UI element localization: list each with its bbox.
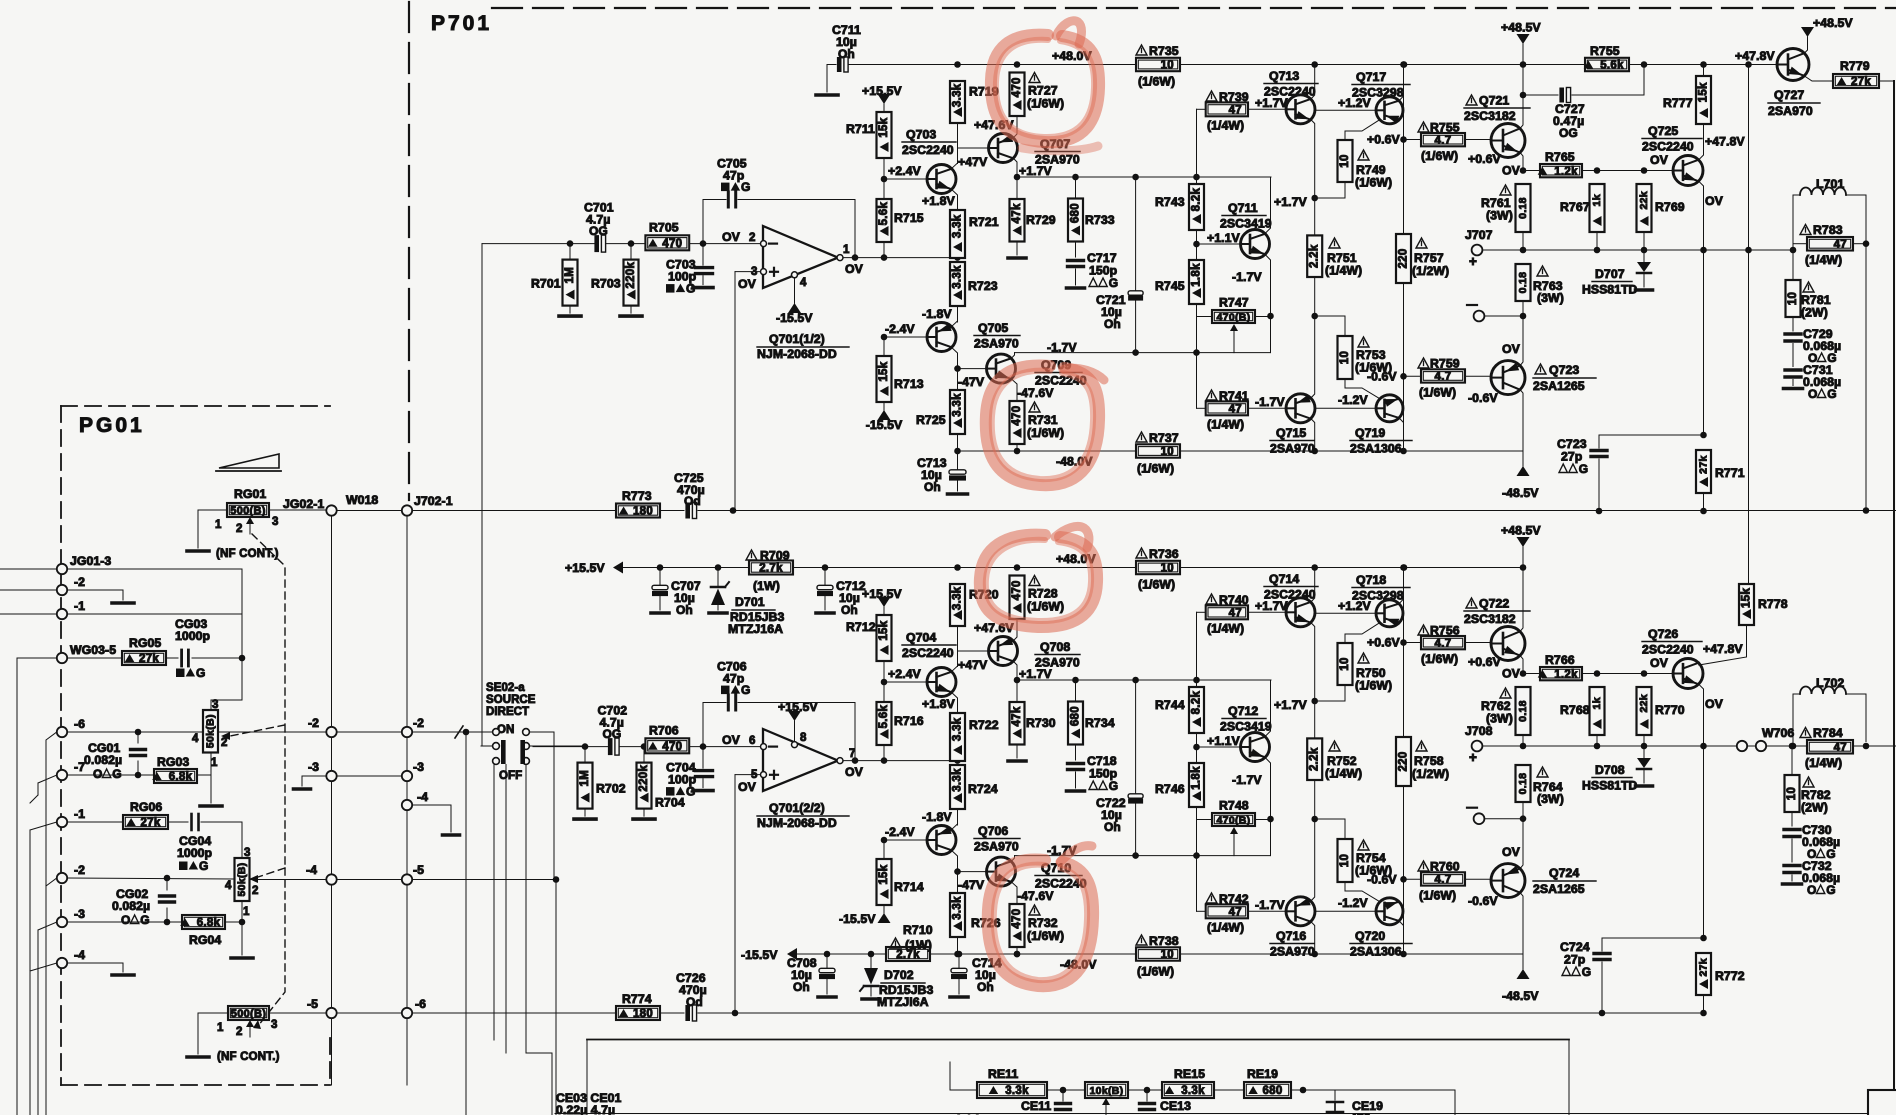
wire	[1485, 315, 1524, 317]
wire	[553, 732, 555, 877]
svg-text:R704: R704	[655, 796, 685, 810]
svg-text:-2: -2	[74, 575, 85, 589]
R747 wiper arrow	[1230, 827, 1238, 856]
trimmer R747	[1212, 310, 1255, 324]
svg-text:OV: OV	[1705, 194, 1724, 208]
junction	[1300, 1087, 1307, 1094]
wire	[412, 731, 492, 733]
inductor L702	[1800, 687, 1846, 694]
+1.7V bus	[1017, 679, 1271, 681]
resistor R702	[578, 763, 593, 809]
transistor Q707	[989, 134, 1018, 163]
capacitor C704	[696, 771, 713, 777]
svg-text:8.2k: 8.2k	[1191, 691, 1203, 715]
svg-text:1k: 1k	[1591, 194, 1603, 206]
wire	[1146, 1090, 1148, 1101]
junction	[730, 507, 737, 514]
wire	[1197, 316, 1213, 318]
resistor R742	[1206, 904, 1248, 918]
base wire Q719	[1316, 910, 1378, 912]
svg-text:HSS81TD: HSS81TD	[1582, 283, 1637, 297]
warning	[1136, 548, 1147, 558]
svg-text:Q713: Q713	[1269, 69, 1299, 83]
wire	[1314, 780, 1316, 819]
svg-text:Q701(1/2): Q701(1/2)	[769, 332, 825, 346]
wire	[412, 804, 451, 806]
resistor R764	[1516, 765, 1531, 802]
wire to switch	[466, 731, 493, 733]
wire	[67, 589, 123, 591]
wire	[762, 746, 764, 748]
svg-text:R744: R744	[1155, 698, 1185, 712]
resistor R733	[1068, 199, 1083, 242]
wire	[957, 369, 959, 390]
svg-text:-15.5V: -15.5V	[866, 418, 903, 432]
feedback line -6	[412, 1012, 616, 1014]
resistor R739	[1206, 102, 1248, 116]
svg-text:R778: R778	[1758, 597, 1788, 611]
svg-text:2SA970: 2SA970	[974, 337, 1019, 351]
wire	[870, 954, 872, 968]
resistor R767	[1590, 184, 1605, 232]
wire	[949, 1062, 951, 1090]
svg-text:15k: 15k	[878, 117, 890, 137]
svg-text:+2.4V: +2.4V	[888, 667, 921, 681]
wire	[1016, 947, 1018, 954]
wire	[1485, 818, 1524, 820]
svg-text:R743: R743	[1155, 195, 1185, 209]
wire	[197, 1013, 199, 1054]
svg-text:2SA1306: 2SA1306	[1350, 945, 1402, 959]
ground	[574, 817, 596, 821]
wire	[702, 747, 704, 769]
base wire Q719	[1316, 407, 1378, 409]
svg-text:-48.5V: -48.5V	[1502, 486, 1539, 500]
svg-text:Q724: Q724	[1549, 866, 1579, 880]
wire	[1601, 938, 1603, 951]
wire	[1248, 910, 1286, 912]
bus	[551, 1053, 553, 1115]
capacitor C727	[1559, 88, 1570, 103]
svg-text:(1/6W): (1/6W)	[1421, 652, 1458, 666]
wire	[660, 510, 684, 512]
warning	[1537, 767, 1548, 777]
svg-text:1: 1	[211, 757, 218, 769]
wire	[883, 242, 885, 258]
svg-text:-1.7V: -1.7V	[1232, 773, 1262, 787]
resistor R735	[1136, 58, 1180, 72]
svg-text:Q708: Q708	[1040, 640, 1070, 654]
resistor R756	[1421, 636, 1465, 650]
svg-text:(3W): (3W)	[1537, 291, 1564, 305]
svg-text:22k: 22k	[1638, 694, 1650, 712]
wire	[168, 821, 188, 823]
op-amp U1 (1/2) NJM-2068	[761, 226, 844, 288]
Q725 collector wire	[1699, 124, 1704, 160]
svg-text:1M: 1M	[579, 770, 591, 787]
connector -6 (col2)	[402, 1008, 412, 1018]
capacitor C731	[1785, 370, 1801, 377]
svg-text:Q721: Q721	[1479, 94, 1509, 108]
resistor R774	[616, 1006, 660, 1020]
ground	[1008, 256, 1026, 260]
ground	[112, 973, 134, 977]
mark	[1559, 464, 1567, 473]
underline	[1464, 107, 1530, 109]
svg-text:220: 220	[1398, 751, 1410, 771]
Q707 emitter wire	[1014, 127, 1018, 138]
wire	[1792, 380, 1794, 386]
wire	[958, 979, 960, 994]
resistor R745	[1189, 260, 1204, 304]
base wire Q711	[1197, 243, 1241, 245]
wire	[166, 908, 168, 922]
svg-text:(1W): (1W)	[905, 938, 932, 952]
junction	[1641, 61, 1648, 68]
terminal minus	[1474, 311, 1485, 322]
svg-text:+47.8V: +47.8V	[1703, 642, 1743, 656]
svg-text:1: 1	[243, 906, 250, 918]
svg-text:G: G	[112, 767, 121, 781]
svg-text:6: 6	[749, 735, 755, 747]
wire	[0, 589, 57, 591]
wire	[1197, 407, 1206, 409]
wire	[1465, 642, 1491, 644]
wire	[0, 568, 57, 570]
resistor R784	[1807, 740, 1853, 754]
op-amp output wire	[843, 760, 958, 762]
svg-text:470: 470	[1011, 406, 1023, 426]
switch pole bars	[501, 740, 506, 764]
svg-text:R739: R739	[1219, 90, 1249, 104]
connector JG01 -3	[57, 917, 67, 927]
svg-text:OV: OV	[1650, 656, 1669, 670]
svg-text:-47.6V: -47.6V	[1017, 386, 1054, 400]
switch contact	[523, 758, 530, 765]
svg-text:SOURCE: SOURCE	[486, 694, 536, 706]
bus	[505, 765, 507, 1054]
svg-text:4: 4	[800, 277, 807, 289]
wire	[717, 568, 719, 587]
svg-text:(1/6W): (1/6W)	[1137, 965, 1174, 979]
+48.5V supply arrow Q727	[1801, 27, 1814, 37]
wire	[201, 821, 242, 823]
wire	[584, 809, 586, 817]
+48.5V rail	[1524, 64, 1585, 66]
wire	[331, 885, 333, 1008]
svg-text:G: G	[196, 666, 205, 680]
resistor R701	[563, 260, 578, 306]
wire	[827, 64, 836, 66]
mark	[1089, 781, 1097, 790]
wire	[1315, 818, 1345, 820]
resistor R763	[1516, 264, 1531, 301]
svg-text:G: G	[598, 224, 607, 238]
resistor R741	[1206, 401, 1248, 415]
-1.7V bus	[1015, 855, 1271, 857]
junction	[164, 919, 171, 926]
svg-text:-1.2V: -1.2V	[1338, 896, 1368, 910]
wire	[1522, 819, 1524, 864]
junction	[822, 564, 829, 571]
svg-text:R731: R731	[1028, 413, 1058, 427]
svg-text:-1.7V: -1.7V	[1255, 395, 1285, 409]
svg-text:-3: -3	[308, 760, 319, 774]
wire	[1135, 177, 1137, 290]
svg-text:180: 180	[633, 1008, 653, 1020]
svg-text:0.082µ: 0.082µ	[84, 753, 122, 767]
svg-text:470: 470	[1011, 77, 1023, 97]
switch contact	[523, 729, 530, 736]
label underline	[757, 346, 849, 348]
wire	[1522, 735, 1524, 746]
wire	[702, 244, 704, 266]
junction	[1790, 247, 1797, 254]
output exit wire	[1866, 510, 1896, 512]
wire	[331, 737, 333, 874]
Q705 collector wire	[952, 347, 958, 368]
wire C705 riser	[702, 200, 704, 244]
resistor RG05	[122, 651, 166, 665]
red annotation circle around R727/Q707	[991, 21, 1099, 151]
svg-text:J708: J708	[1465, 724, 1493, 738]
wire	[67, 613, 242, 615]
svg-text:R765: R765	[1545, 150, 1575, 164]
svg-text:G: G	[1827, 387, 1836, 401]
svg-text:+47.8V: +47.8V	[1705, 135, 1745, 149]
warning	[1535, 364, 1546, 374]
wire	[1846, 693, 1866, 695]
capacitor C707	[652, 585, 668, 596]
svg-text:-2.4V: -2.4V	[885, 322, 915, 336]
junction	[1700, 432, 1707, 439]
svg-text:J702-1: J702-1	[414, 494, 453, 508]
svg-text:G: G	[140, 913, 149, 927]
capacitor C729	[1785, 334, 1801, 341]
mark	[721, 686, 730, 695]
resistor R759	[1421, 369, 1465, 383]
minus label	[1467, 304, 1477, 306]
svg-text:Q712: Q712	[1228, 704, 1258, 718]
svg-text:(1/6W): (1/6W)	[1355, 176, 1392, 190]
svg-text:W018: W018	[346, 493, 378, 507]
svg-text:Q723: Q723	[1549, 363, 1579, 377]
ground	[1067, 286, 1085, 290]
wire	[1248, 108, 1286, 110]
Q707 emitter wire	[1014, 630, 1018, 641]
svg-text:R728: R728	[1028, 587, 1058, 601]
resistor RG06	[123, 815, 168, 829]
terminal minus	[1474, 813, 1485, 824]
ground	[1636, 288, 1653, 292]
connector -4 (col2)	[402, 800, 412, 810]
svg-text:Q727: Q727	[1774, 88, 1804, 102]
svg-text:470(B): 470(B)	[1217, 815, 1251, 827]
terminal J707	[1472, 245, 1483, 256]
-15.5V supply arrow	[788, 303, 801, 313]
wire	[137, 732, 139, 743]
ground	[862, 997, 880, 1001]
svg-text:(3W): (3W)	[1486, 209, 1513, 223]
capacitor CE13	[1140, 1104, 1155, 1110]
junction	[1400, 136, 1407, 143]
wire	[607, 243, 704, 245]
junction	[1193, 744, 1200, 751]
+15.5V line	[623, 567, 749, 569]
underline	[1352, 587, 1410, 589]
junction	[1072, 677, 1079, 684]
wire	[1793, 693, 1800, 695]
svg-text:R742: R742	[1219, 892, 1249, 906]
svg-text:-0.6V: -0.6V	[1468, 894, 1498, 908]
capacitor C711	[837, 57, 848, 72]
wire	[870, 986, 872, 996]
connector JG01 -1	[57, 817, 67, 827]
wire R743 column	[1196, 177, 1198, 353]
wire	[1255, 819, 1271, 821]
svg-text:+48.5V: +48.5V	[1813, 16, 1853, 30]
junction	[239, 919, 246, 926]
svg-text:OV: OV	[722, 733, 741, 747]
svg-text:2: 2	[252, 885, 258, 897]
svg-text:(NF CONT.): (NF CONT.)	[217, 1051, 280, 1063]
svg-text:1.2k: 1.2k	[1554, 669, 1578, 681]
wire	[526, 1052, 552, 1054]
Q705 emitter wire	[952, 824, 958, 830]
junction	[164, 875, 171, 882]
wire	[957, 434, 959, 451]
wire	[660, 1012, 684, 1014]
RG07 wiper arrow	[246, 1020, 254, 1037]
svg-text:O: O	[603, 727, 612, 741]
junction	[1700, 1010, 1707, 1017]
svg-text:(1/6W): (1/6W)	[1355, 679, 1392, 693]
junction	[1400, 639, 1407, 646]
wire	[337, 1012, 402, 1014]
svg-text:R759: R759	[1430, 357, 1460, 371]
feedback riser pin5	[734, 775, 736, 1013]
Q715 collector wire	[1311, 922, 1315, 954]
svg-text:2.2k: 2.2k	[1309, 244, 1321, 268]
svg-text:-15.5V: -15.5V	[741, 948, 778, 962]
capacitor C714	[951, 968, 967, 979]
svg-text:+1.7V: +1.7V	[1274, 698, 1307, 712]
connector J702-1	[402, 505, 412, 515]
wire	[584, 747, 586, 763]
transistor Q719	[1376, 395, 1403, 422]
base wire Q709	[958, 871, 987, 873]
junction	[657, 564, 664, 571]
wire	[533, 746, 608, 748]
+48.5V rail	[1404, 64, 1524, 66]
Q711 collector wire	[1265, 680, 1271, 737]
mark	[1562, 967, 1570, 976]
capacitor C722	[1128, 794, 1143, 804]
svg-text:CE11: CE11	[1021, 1099, 1051, 1113]
wire	[241, 569, 243, 700]
NF control dashed link (top)	[230, 534, 285, 1026]
warning	[1029, 402, 1040, 412]
svg-text:OV: OV	[1502, 342, 1521, 356]
bus col2	[406, 516, 408, 727]
wire	[1454, 1090, 1456, 1115]
svg-text:RG05: RG05	[129, 636, 161, 650]
svg-text:470: 470	[1011, 580, 1023, 600]
svg-text:O: O	[684, 494, 693, 508]
connector JG01 -1	[57, 609, 67, 619]
svg-text:+1.7V: +1.7V	[1274, 195, 1307, 209]
svg-text:10: 10	[1161, 446, 1174, 458]
capacitor C732	[1784, 866, 1800, 873]
wire	[1643, 232, 1645, 250]
junction	[1599, 1010, 1606, 1017]
svg-text:G: G	[199, 859, 208, 873]
resistor R749	[1338, 140, 1353, 182]
warning	[1358, 653, 1369, 663]
wire	[197, 774, 211, 776]
wire	[1522, 232, 1524, 250]
resistor R728	[1010, 576, 1025, 620]
svg-text:R714: R714	[894, 880, 924, 894]
transistor Q727	[1777, 49, 1809, 81]
svg-text:R774: R774	[622, 992, 652, 1006]
svg-text:1k: 1k	[1591, 697, 1603, 709]
+15.5V arrow	[613, 562, 623, 574]
underline	[1350, 943, 1412, 945]
transistor Q713	[1286, 95, 1315, 124]
wire	[1643, 769, 1645, 783]
svg-text:47: 47	[1229, 105, 1242, 117]
wire	[826, 979, 828, 994]
svg-text:5.6k: 5.6k	[878, 202, 890, 226]
svg-text:27k: 27k	[140, 817, 160, 829]
warning	[1500, 688, 1511, 698]
warning	[1803, 777, 1814, 787]
CG03 mark	[176, 669, 185, 678]
svg-text:NJM-2068-DD: NJM-2068-DD	[757, 347, 837, 361]
junction	[715, 564, 722, 571]
svg-text:0.082µ: 0.082µ	[112, 899, 150, 913]
wire	[1465, 139, 1491, 141]
svg-text:-1.2V: -1.2V	[1338, 393, 1368, 407]
junction	[954, 564, 961, 571]
wire	[250, 879, 326, 881]
svg-text:27k: 27k	[1851, 76, 1871, 88]
junction	[1520, 313, 1527, 320]
svg-text:2.7k: 2.7k	[759, 563, 783, 575]
svg-text:Q717: Q717	[1356, 70, 1386, 84]
junction	[1193, 174, 1200, 181]
warning	[1206, 594, 1217, 604]
wire	[1315, 315, 1345, 317]
wire	[1128, 1089, 1162, 1091]
warning	[1136, 935, 1147, 945]
junction	[1520, 670, 1527, 677]
junction	[1700, 61, 1707, 68]
svg-text:2SC3419: 2SC3419	[1220, 217, 1272, 231]
Q715 emitter wire	[1311, 316, 1315, 398]
underline	[1592, 281, 1632, 283]
capacitor C713	[949, 470, 966, 481]
+48.0V rail	[1180, 567, 1404, 569]
wire	[1572, 94, 1644, 96]
svg-text:2SC3419: 2SC3419	[1220, 720, 1272, 734]
svg-text:(1/2W): (1/2W)	[1412, 264, 1449, 278]
mark	[721, 183, 730, 192]
svg-text:8.2k: 8.2k	[1191, 188, 1203, 212]
Q721 emitter wire	[1520, 153, 1523, 171]
resistor R755	[1584, 58, 1629, 72]
